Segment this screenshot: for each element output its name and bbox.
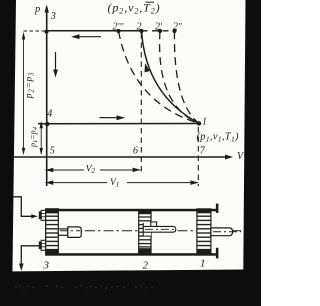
svg-text:2: 2	[137, 22, 142, 33]
svg-text:4: 4	[47, 109, 52, 120]
svg-text:5: 5	[50, 146, 55, 157]
svg-text:2″: 2″	[173, 22, 182, 33]
svg-text:p: p	[34, 4, 40, 15]
svg-text:3: 3	[50, 11, 56, 22]
svg-text:6: 6	[133, 146, 138, 157]
svg-text:3: 3	[43, 260, 50, 272]
svg-text:1: 1	[200, 258, 206, 270]
svg-text:2: 2	[143, 260, 149, 272]
svg-text:2′′′: 2′′′	[113, 22, 125, 33]
svg-text:1: 1	[202, 117, 207, 128]
svg-text:2′: 2′	[155, 22, 163, 33]
